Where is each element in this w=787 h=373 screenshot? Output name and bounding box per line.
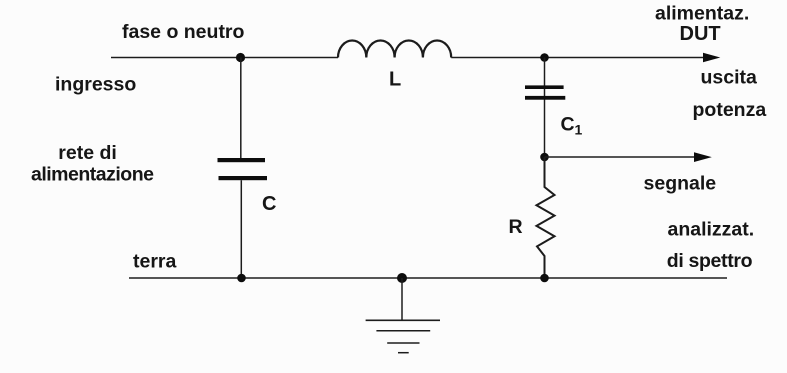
svg-text:terra: terra <box>133 250 177 272</box>
svg-text:C: C <box>561 114 575 136</box>
svg-text:uscita: uscita <box>701 67 758 89</box>
svg-text:L: L <box>389 68 401 90</box>
svg-text:analizzat.: analizzat. <box>668 219 755 241</box>
svg-text:R: R <box>509 216 523 238</box>
svg-text:DUT: DUT <box>680 23 721 45</box>
svg-text:segnale: segnale <box>644 173 717 195</box>
svg-text:rete di: rete di <box>58 142 117 164</box>
svg-text:alimentazione: alimentazione <box>31 164 154 186</box>
svg-text:fase o neutro: fase o neutro <box>122 21 245 43</box>
svg-text:di spettro: di spettro <box>667 250 753 272</box>
svg-text:1: 1 <box>575 121 583 137</box>
svg-text:alimentaz.: alimentaz. <box>655 2 749 24</box>
svg-text:C: C <box>262 193 276 215</box>
svg-text:ingresso: ingresso <box>55 74 136 96</box>
svg-text:potenza: potenza <box>693 99 767 121</box>
